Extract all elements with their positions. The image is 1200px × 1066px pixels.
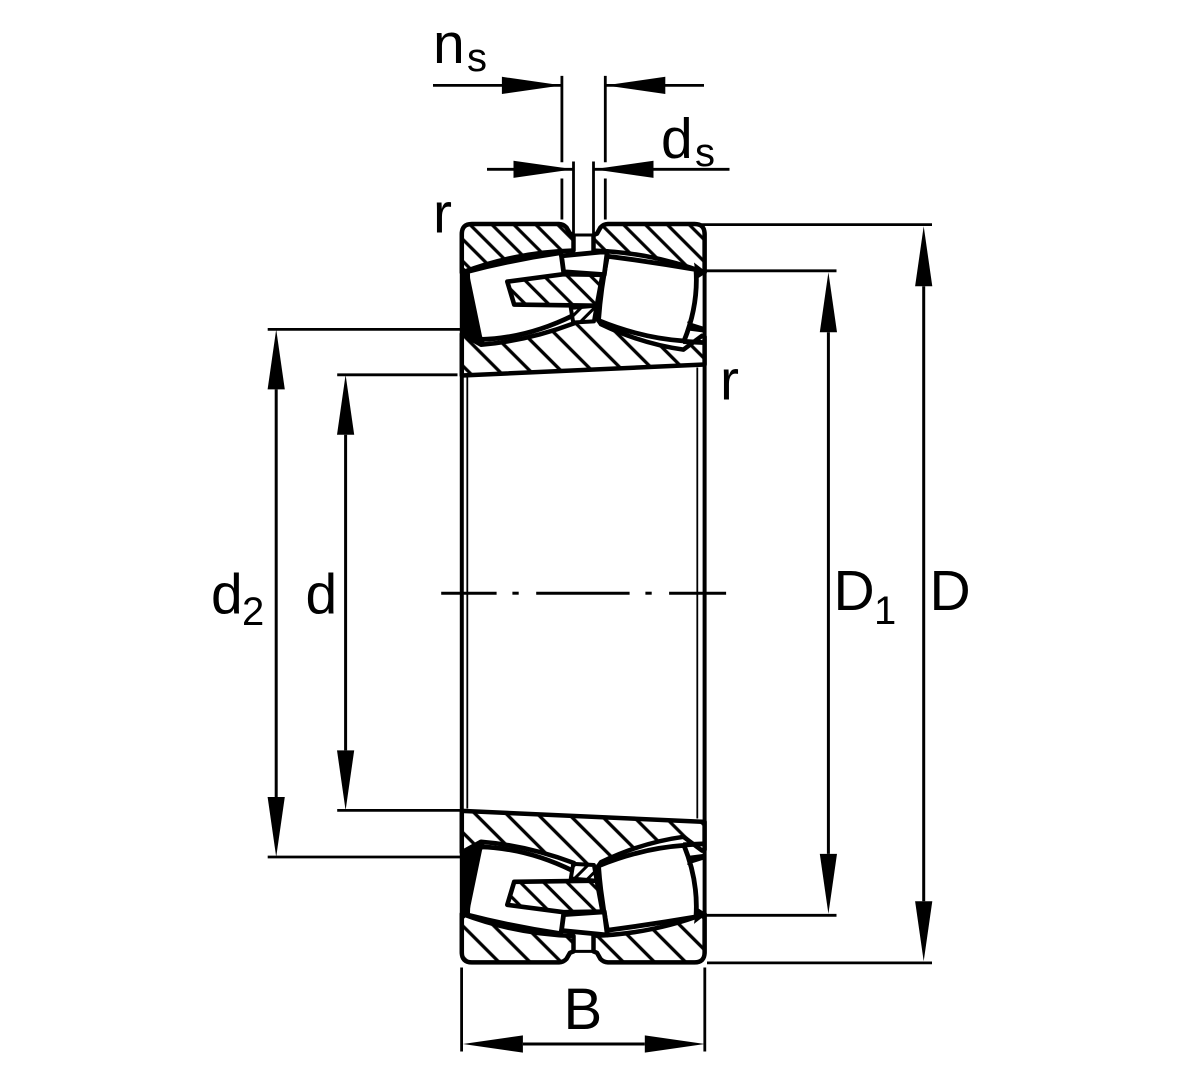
- cage bar bottom: [562, 912, 608, 935]
- contact shadow bottom left: [460, 841, 486, 922]
- outer ring bottom left half: [462, 914, 574, 963]
- extension lines d: [337, 373, 457, 376]
- svg-text:n: n: [433, 12, 465, 76]
- inner ring rib bottom: [571, 864, 597, 881]
- centerline: [441, 592, 496, 595]
- svg-text:d: d: [306, 563, 338, 627]
- bore chamfer line right: [696, 368, 698, 819]
- extension lines n_s: [561, 76, 564, 162]
- svg-text:r: r: [720, 348, 739, 412]
- contact shadow bottom outer right: [694, 907, 707, 924]
- svg-text:r: r: [433, 182, 452, 246]
- bearing right face: [703, 232, 707, 954]
- bore chamfer line left: [466, 378, 468, 809]
- extension lines D1: [707, 269, 837, 272]
- inner ring rib top: [571, 306, 597, 323]
- lubrication groove ledge top: [574, 234, 594, 237]
- roller bottom left: [468, 847, 574, 934]
- svg-text:B: B: [564, 977, 603, 1042]
- contact shadow top outer right: [694, 263, 707, 280]
- contact shadow top inner right: [687, 322, 705, 333]
- dimension d_s: [487, 168, 574, 171]
- roller bottom right: [599, 845, 697, 931]
- contact shadow bottom inner right: [687, 854, 705, 865]
- inner ring top: [462, 311, 705, 375]
- svg-text:D: D: [930, 559, 971, 623]
- roller top right: [599, 256, 697, 342]
- extension lines D: [701, 223, 932, 226]
- svg-text:2: 2: [242, 590, 264, 634]
- outer ring bottom right half: [594, 914, 705, 963]
- dimension d: [344, 435, 347, 751]
- inner ring bottom: [462, 811, 705, 875]
- dimension D1: [827, 332, 830, 854]
- svg-text:1: 1: [874, 589, 896, 633]
- extension lines d2: [268, 328, 472, 331]
- svg-text:s: s: [467, 36, 487, 80]
- extension lines d_s: [572, 162, 575, 234]
- dimension D: [922, 286, 925, 901]
- svg-text:d: d: [211, 563, 243, 627]
- dimension B: [523, 1043, 645, 1046]
- dimension n_s: [433, 84, 562, 87]
- lubrication groove ledge bottom: [574, 950, 594, 953]
- outer ring top left half: [462, 224, 574, 273]
- dimension d2: [275, 389, 278, 797]
- cage arm top: [507, 274, 602, 306]
- bearing left face: [460, 232, 464, 954]
- svg-text:D: D: [834, 559, 875, 623]
- contact shadow top left: [460, 265, 486, 346]
- roller top left: [468, 253, 574, 340]
- extension lines B: [460, 968, 463, 1052]
- cage bar top: [562, 251, 608, 274]
- svg-text:d: d: [661, 107, 693, 171]
- cage arm bottom: [507, 881, 602, 913]
- outer ring top right half: [594, 224, 705, 273]
- svg-text:s: s: [695, 131, 715, 175]
